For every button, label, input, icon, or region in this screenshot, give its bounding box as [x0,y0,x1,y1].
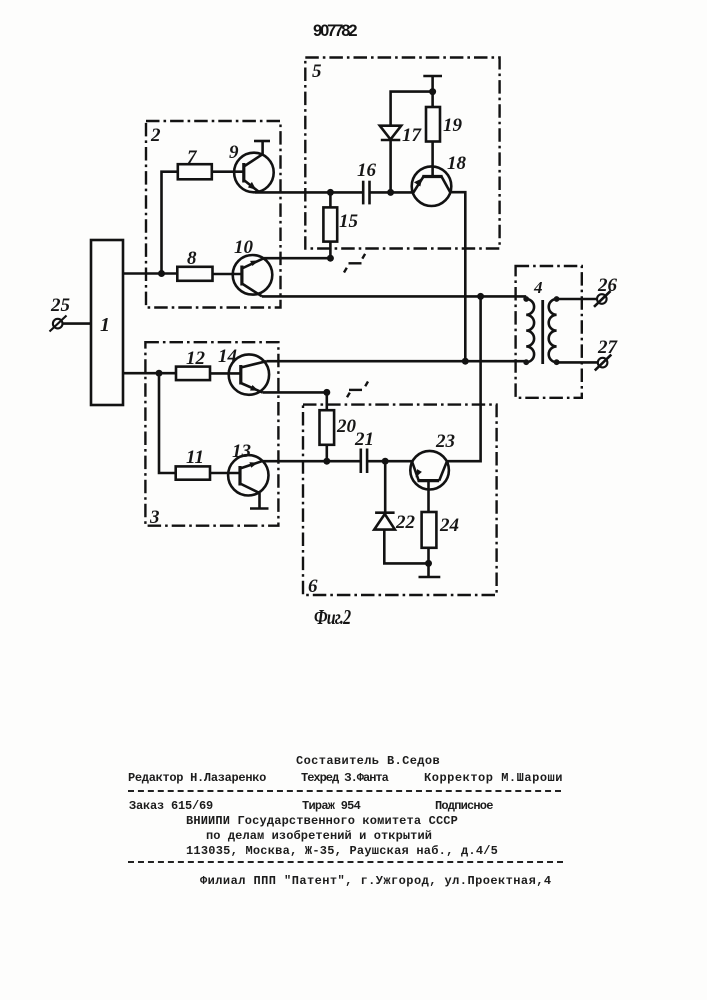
minus mark near node under R15 [344,254,365,273]
transistor 14 [229,354,269,394]
transistor 18 [412,166,452,206]
diode 17 [380,126,401,140]
block 1 (input shaper) [91,240,123,405]
svg-text:1: 1 [100,314,110,336]
wire R20 bottom to node on W4 [325,445,328,461]
wire Q14 lower line W3 to node above R20 [262,391,326,394]
wire block1 to node of R12/R11 [123,372,176,375]
wire secondary top to terminal 26 [557,298,597,301]
wire Q23 collector to line A [447,296,481,461]
typewriter imprint block [296,754,440,768]
wire branch up to R7 [162,172,178,274]
power tick above Q9 [254,141,270,154]
wire Q10 emitter to node under R15 [264,257,331,260]
wire W1 to R15 top [329,192,332,207]
main wire W1 from Q9 to cap 16 [255,191,363,194]
wire secondary bottom to terminal 27 [557,361,598,364]
block 3 dash-dot box [145,342,278,526]
svg-text:4: 4 [533,278,543,297]
resistor 12 [176,367,210,381]
node at diode junction on W1 [387,189,394,196]
svg-text:15: 15 [339,211,359,232]
input terminal 25 [50,316,67,332]
power tick top of block 5 [423,76,442,107]
svg-text:21: 21 [354,429,374,450]
main wire W4 from Q13 to cap 21 [262,460,361,463]
svg-text:8: 8 [187,248,197,269]
node junction at R12 branch [156,370,163,377]
line A: Q10 collector to transformer primary top [262,295,526,298]
resistor 11 [176,466,210,479]
minus mark near node above R20 [347,382,368,398]
wire cap16 to Q18 base [370,191,414,194]
svg-text:5: 5 [312,61,322,82]
wire block1 to node of R7/R8 [123,272,177,275]
transistor 9 [234,153,274,193]
resistor 15 [323,207,337,241]
wire input 25 to block 1 [63,322,92,325]
line B: Q14 to transformer primary bottom [266,360,526,363]
diode 22 [374,513,395,530]
svg-text:6: 6 [308,576,318,597]
svg-text:27: 27 [597,337,619,358]
patent number 907782 [313,22,355,41]
power tick below Q13 [250,493,269,509]
node junction at R8 branch [158,270,165,277]
block 2 dash-dot box [146,121,281,308]
svg-text:19: 19 [443,115,463,136]
wire diode 17 to main line node [389,140,392,192]
transformer 4 secondary winding [549,299,557,362]
junction on line B [462,358,469,365]
block 5 dash-dot box [305,58,499,249]
wire Q23 emitter down to R24 [427,481,430,512]
wire node on W4 down to diode 22 [384,461,387,513]
wire R24 bottom to node [427,548,430,564]
wire power branch to diode 17 [391,92,433,126]
output terminal 26 [594,291,611,307]
wire R12 to Q14 base [210,372,241,375]
transformer 4 primary winding [526,299,534,362]
svg-text:11: 11 [186,447,204,468]
transformer 4 core [541,300,544,364]
ground tick below R24 [419,563,441,577]
wire node to R20 top [325,392,328,410]
svg-text:20: 20 [336,416,357,437]
svg-text:14: 14 [218,346,237,367]
resistor 8 [177,267,212,281]
block 6 dash-dot box [303,405,497,595]
svg-text:13: 13 [232,441,251,462]
figure caption Фиг.2 [314,605,350,630]
node below R24 [425,560,432,567]
svg-text:23: 23 [435,431,455,452]
svg-text:9: 9 [229,142,239,163]
wire R15 bottom to node [329,242,332,259]
svg-text:16: 16 [357,160,377,181]
wire R8 to Q10 base [213,273,242,276]
wire Q18 emitter to down bus [450,192,465,361]
svg-text:18: 18 [447,153,467,174]
wire R11 to Q13 base [210,472,240,475]
resistor 19 [426,107,440,142]
node W4 below R20 [323,458,330,465]
resistor 20 [320,410,335,445]
wire R7 to Q9 base [212,170,244,173]
node under R15 [327,255,334,262]
transistor 13 [228,455,268,495]
wire branch down to R11 [159,373,176,473]
wire cap21 to Q23 [367,460,412,463]
svg-text:24: 24 [439,515,459,536]
transformer 4 dash-dot box [516,266,582,398]
winding terminal dots [523,296,529,302]
wire R19 to Q18 [431,142,434,177]
resistor 7 [178,164,212,179]
svg-text:2: 2 [150,125,161,146]
wire diode 22 to R24 bottom node [384,530,428,564]
svg-text:12: 12 [186,348,206,369]
node at power branch [429,88,436,95]
svg-text:25: 25 [50,295,71,316]
output terminal 27 [595,355,612,371]
node W1 above R15 [327,189,334,196]
svg-text:3: 3 [149,507,160,528]
node at diode 22 junction [382,458,389,465]
junction on line A [477,293,484,300]
transistor 10 [233,255,273,296]
svg-text:26: 26 [597,275,618,296]
capacitor 16 [363,181,369,205]
capacitor 21 [361,449,367,474]
resistor 24 [422,512,437,548]
transistor 23 [410,451,449,490]
svg-text:17: 17 [402,125,423,146]
node above R20 [323,389,330,396]
svg-text:22: 22 [395,512,416,533]
svg-text:7: 7 [187,147,198,168]
svg-text:10: 10 [234,237,254,258]
